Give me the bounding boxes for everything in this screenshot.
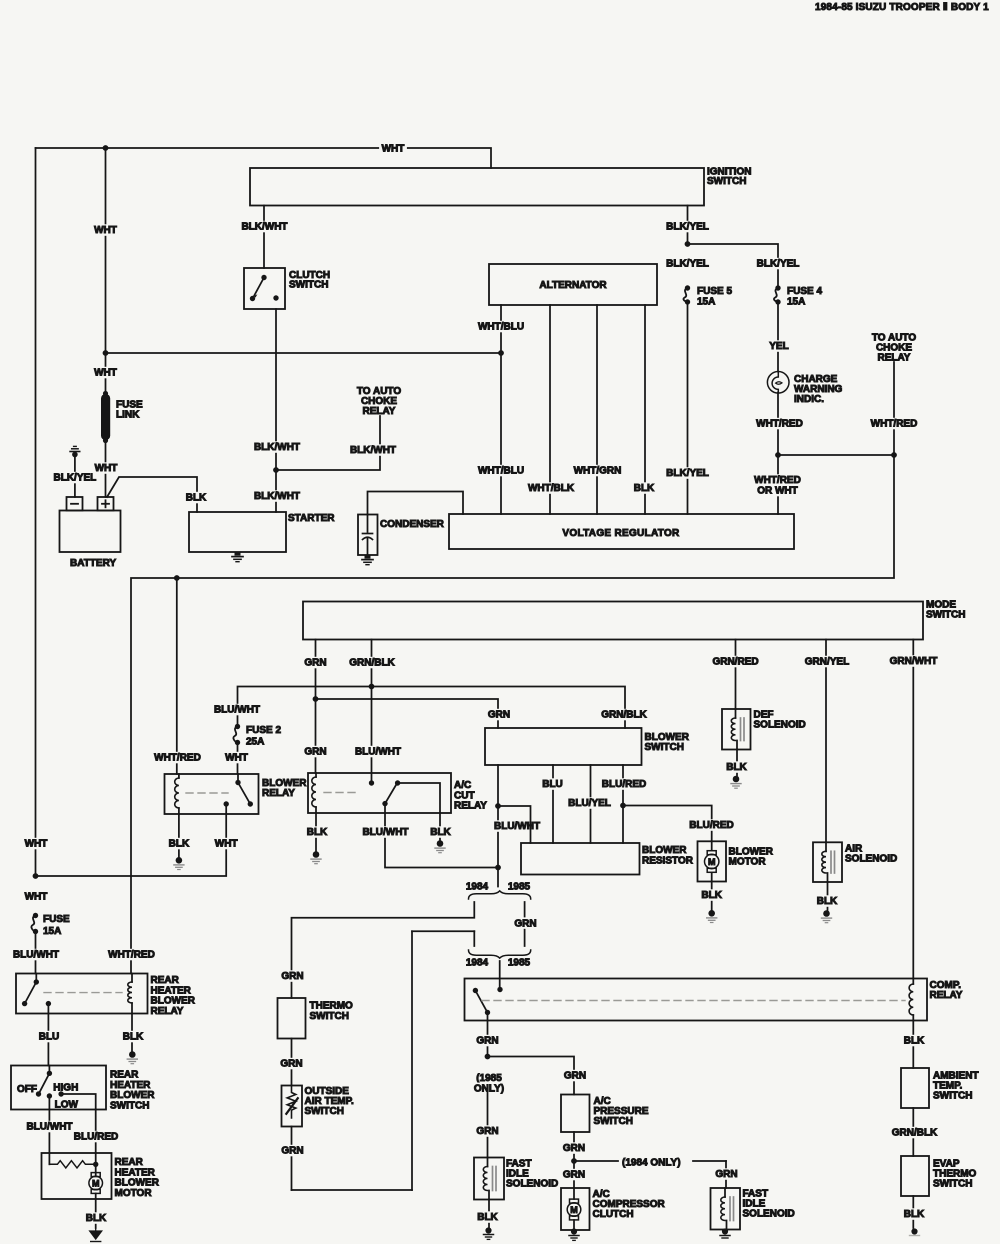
blower motor [698,841,727,881]
svg-text:WHT/BLK: WHT/BLK [528,483,575,494]
air solenoid [813,842,842,882]
svg-text:BLK: BLK [904,1209,925,1220]
wire WHT link to alternator tap [106,352,502,354]
wire GRN to thermo switch [280,970,306,982]
svg-text:BLK/WHT: BLK/WHT [254,442,300,453]
rear heater blower relay [16,974,148,1014]
wire BLK A/C cut relay coil ground [315,813,317,851]
svg-text:GRN: GRN [304,658,326,669]
svg-text:BLU/RED: BLU/RED [74,1132,118,1143]
wire 1985 branch upper [524,902,526,917]
svg-text:GRN: GRN [514,919,536,930]
alternator box [489,264,657,305]
svg-text:CLUTCH: CLUTCH [593,1209,634,1220]
svg-text:BLK: BLK [86,1213,107,1224]
wire BLU/WHT fuse to rear heater blower relay [35,932,37,974]
svg-text:GRN/BLK: GRN/BLK [349,658,395,669]
svg-text:25A: 25A [246,737,264,748]
ground starter [235,552,241,556]
A/C pressure switch box [561,1095,590,1133]
voltage regulator box [449,514,794,549]
ground A/C cut relay coil [313,851,320,858]
wire 1985 branch lower [524,930,526,946]
svg-text:WHT/GRN: WHT/GRN [574,466,622,477]
wire BLU/WHT blower switch left output [497,765,499,868]
ground A/C cut relay contact [437,840,444,847]
svg-text:GRN: GRN [281,971,303,982]
A/C compressor clutch [561,1188,590,1230]
svg-text:BLU/WHT: BLU/WHT [13,950,59,961]
svg-text:MOTOR: MOTOR [115,1188,153,1199]
ignition switch box [250,168,704,206]
svg-text:GRN: GRN [563,1143,585,1154]
blower relay [165,774,259,814]
svg-text:FUSE: FUSE [43,914,70,925]
svg-text:BLK: BLK [123,1032,144,1043]
svg-text:15A: 15A [787,297,805,308]
svg-text:BLK/YEL: BLK/YEL [666,468,709,479]
rear heater blower motor [42,1153,112,1199]
svg-text:GRN/WHT: GRN/WHT [890,656,938,667]
junction WHT/RED [775,452,781,458]
charge warning indicator [767,372,789,394]
svg-text:WHT/BLU: WHT/BLU [478,322,524,333]
ground evap thermo switch [911,1228,917,1234]
svg-text:GRN/RED: GRN/RED [712,657,758,668]
svg-text:RELAY: RELAY [151,1006,184,1017]
wire GRN pressure switch down [573,1132,575,1161]
wire GRN branch to blower switch [316,699,499,728]
svg-text:SWITCH: SWITCH [594,1116,633,1127]
svg-text:GRN: GRN [564,1071,586,1082]
wire BLU/RED blower switch to resistor [622,765,624,843]
wire WHT blower relay to rear heater fuse [36,814,226,876]
node WHT label top [379,143,407,155]
svg-text:BLU/WHT: BLU/WHT [355,747,401,758]
svg-text:M: M [92,1178,100,1188]
svg-text:GRN/BLK: GRN/BLK [601,710,647,721]
wire BLK/WHT clutch to starter [275,309,277,512]
svg-text:VOLTAGE REGULATOR: VOLTAGE REGULATOR [562,528,680,539]
svg-text:WHT: WHT [94,225,117,236]
wire WHT/BLK alternator to voltage regulator [549,305,551,514]
blower resistor box [521,843,640,875]
ambient temp switch box [901,1068,929,1108]
svg-text:SWITCH: SWITCH [289,280,328,291]
svg-text:BLK: BLK [817,896,838,907]
clutch switch [244,268,285,309]
wire WHT/GRN alternator to voltage regulator [596,305,598,514]
svg-text:GRN: GRN [476,1126,498,1137]
junction BLK/YEL split [685,241,691,247]
ground fast idle solenoid right [722,1228,728,1234]
wire 1984 bypass loop [412,930,474,932]
svg-text:WHT/RED: WHT/RED [756,419,803,430]
junction year brace [495,865,501,871]
condenser [368,492,464,515]
node WHT label below junction [92,367,120,379]
wire BLU/RED rear switch to motor [95,1110,97,1154]
svg-text:WHT: WHT [382,144,405,155]
wire BLK/YEL branch to fuse 4 [688,244,779,288]
wire WHT fuse link to battery positive [105,441,107,498]
svg-text:SWITCH: SWITCH [933,1179,972,1190]
svg-text:BLU/RED: BLU/RED [689,820,733,831]
svg-text:RELAY: RELAY [454,801,487,812]
wire BLK def solenoid ground [736,750,738,776]
svg-text:BLK/YEL: BLK/YEL [54,473,97,484]
wire GRN to A/C cut relay coil [315,699,317,773]
wire WHT/RED junction crossbar [778,454,894,456]
junction WHT/RED right [891,452,897,458]
wire GRN/RED mode switch to def solenoid [735,640,737,710]
svg-text:SOLENOID: SOLENOID [743,1209,795,1220]
wire GRN mode switch down [315,640,317,700]
svg-text:BLK/WHT: BLK/WHT [254,491,300,502]
svg-text:BLU/WHT: BLU/WHT [494,821,540,832]
svg-text:SWITCH: SWITCH [645,742,684,753]
svg-text:LOW: LOW [55,1100,79,1111]
ground rear heater blower relay [129,1051,136,1058]
wire BLU/WHT rear switch to motor [48,1110,50,1154]
evap thermo switch box [901,1156,929,1196]
fuse 15A [33,913,38,918]
svg-text:RESISTOR: RESISTOR [642,855,694,866]
svg-text:SWITCH: SWITCH [110,1100,149,1111]
outside air temp switch [282,1086,303,1127]
svg-text:SWITCH: SWITCH [707,176,746,187]
wire BLK/YEL fuse 5 to voltage regulator [687,302,689,514]
wire BLK battery positive to starter [107,477,197,512]
wire WHT to fuse link [105,148,107,394]
wire WHT fuse 2 to blower relay [237,743,239,775]
svg-text:BLU/WHT: BLU/WHT [26,1122,72,1133]
fast idle solenoid left [474,1158,504,1200]
wire BLU blower switch to resistor [552,765,554,843]
wire WHT/BLU alternator to voltage regulator [500,305,502,514]
wire WHT/RED to blower relay coil [176,578,178,774]
junction BLU/WHT resistor tap [495,803,501,809]
starter [189,512,286,552]
wire BLU/WHT to A/C cut relay switch [371,687,373,784]
svg-text:ONLY): ONLY) [474,1083,504,1094]
svg-text:SWITCH: SWITCH [926,610,965,621]
svg-text:HIGH: HIGH [53,1083,78,1094]
svg-text:OFF: OFF [17,1084,37,1095]
junction BLU/RED motor tap [620,803,626,809]
svg-text:YEL: YEL [769,341,788,352]
wire BLK evap thermo ground [912,1196,914,1228]
wire GRN/BLK ambient to evap thermo switch [912,1108,914,1156]
svg-text:15A: 15A [697,297,715,308]
svg-text:1984: 1984 [466,958,489,969]
svg-text:WHT/RED: WHT/RED [754,475,801,486]
wire BLK rear relay coil ground [131,1014,133,1052]
svg-text:INDIC.: INDIC. [794,394,824,405]
thermo switch box [278,998,306,1039]
svg-text:GRN: GRN [563,1170,585,1181]
svg-text:SWITCH: SWITCH [310,1011,349,1022]
wire BLK A/C cut relay contact ground [439,813,441,840]
svg-text:FUSE 5: FUSE 5 [697,286,732,297]
wire GRN thermo to outside air temp switch [291,1039,293,1086]
svg-text:GRN: GRN [488,710,510,721]
wire GRN/YEL mode switch to air solenoid [825,640,827,843]
svg-text:GRN: GRN [280,1059,302,1070]
svg-text:(1984 ONLY): (1984 ONLY) [622,1158,681,1169]
comp relay [465,979,928,1021]
svg-text:BLK: BLK [307,827,328,838]
svg-text:GRN/BLK: GRN/BLK [892,1128,938,1139]
label 1985 only [473,1072,504,1084]
svg-text:BLK: BLK [634,483,655,494]
wire BLU/WHT jog to blower resistor [498,806,531,843]
wire 1984 branch to thermo switch [292,902,475,998]
svg-text:WHT: WHT [94,368,117,379]
wire GRN to A/C compressor clutch [573,1161,575,1188]
svg-text:WHT/BLU: WHT/BLU [478,466,524,477]
mode switch box [303,602,923,640]
ground above battery negative [72,452,78,458]
svg-text:BLK: BLK [904,1036,925,1047]
svg-text:RELAY: RELAY [262,788,295,799]
svg-text:WHT/RED: WHT/RED [871,419,918,430]
svg-text:FUSE 2: FUSE 2 [246,725,281,736]
wire BLU/YEL blower switch to resistor [590,765,592,843]
svg-text:1984: 1984 [466,882,489,893]
svg-text:SWITCH: SWITCH [305,1106,344,1117]
svg-text:BLU: BLU [542,779,563,790]
wire BLU rear relay to rear switch [47,1014,49,1066]
junction fuse-link tap [103,145,109,151]
svg-text:GRN: GRN [476,1036,498,1047]
wire GRN comp relay output [487,1013,489,1057]
wire BLK/YEL battery negative to ground [74,456,76,497]
svg-text:GRN: GRN [304,747,326,758]
svg-text:BATTERY: BATTERY [70,558,116,569]
svg-text:FUSE 4: FUSE 4 [787,286,822,297]
ground blower motor [708,910,715,917]
svg-text:BLU/WHT: BLU/WHT [362,827,408,838]
wire GRN outside air temp switch return [291,1127,293,1191]
wire BLK alternator to voltage regulator [644,305,646,514]
ground def solenoid [733,776,740,783]
svg-text:15A: 15A [43,926,61,937]
wire WHT/RED power rail [131,455,894,974]
svg-text:BLU/RED: BLU/RED [602,779,646,790]
wire WHT/RED indicator to junction [777,393,779,456]
def solenoid [722,709,751,750]
svg-text:BLK/WHT: BLK/WHT [241,222,287,233]
svg-text:WHT: WHT [25,892,48,903]
wire 1984 return branch [473,931,475,946]
svg-text:LINK: LINK [116,410,140,421]
wire year brace feed [497,868,499,887]
wire GRN to fast idle solenoid left [487,1091,489,1158]
svg-text:BLK/WHT: BLK/WHT [350,445,396,456]
wire left border WHT vertical [35,148,37,876]
svg-text:BLU: BLU [39,1032,60,1043]
wire BLK/YEL ignition switch down [687,206,689,245]
svg-text:BLK: BLK [477,1212,498,1223]
svg-text:BLK/YEL: BLK/YEL [666,222,709,233]
svg-text:SOLENOID: SOLENOID [506,1179,558,1190]
wire 1984 only crossover [574,1160,618,1162]
battery [60,511,121,553]
wire WHT/RED OR WHT to voltage regulator [777,455,779,514]
wire BLK blower motor ground [711,882,713,911]
wire BLK comp relay to ambient temp switch [912,1021,914,1069]
rear heater blower switch [11,1066,106,1110]
svg-text:SOLENOID: SOLENOID [845,854,897,865]
svg-text:BLK: BLK [430,827,451,838]
junction GRN/BLK [369,684,375,690]
wire YEL fuse 4 to charge warning indicator [777,302,779,372]
svg-text:1985: 1985 [508,958,531,969]
wire GRN/WHT mode switch to comp relay [912,640,914,979]
svg-text:ALTERNATOR: ALTERNATOR [539,280,607,291]
svg-text:BLK: BLK [169,839,190,850]
svg-text:BLK: BLK [726,762,747,773]
wire BLK air solenoid ground [827,882,829,910]
svg-text:BLK/YEL: BLK/YEL [757,259,800,270]
ground rear heater blower motor [90,1228,102,1239]
fuse link [101,394,110,440]
svg-text:GRN: GRN [281,1146,303,1157]
ground air solenoid [823,910,830,917]
ground A/C compressor clutch [571,1228,577,1234]
year brace top [469,891,531,899]
svg-text:WHT: WHT [215,839,238,850]
svg-text:BLK: BLK [701,890,722,901]
svg-text:BLK: BLK [186,493,207,504]
svg-text:WHT/RED: WHT/RED [154,753,201,764]
svg-text:GRN: GRN [715,1169,737,1180]
svg-text:STARTER: STARTER [288,513,335,524]
wire WHT top feed horizontal [36,148,492,168]
junction blower relay feed [174,575,180,581]
svg-text:BLU/YEL: BLU/YEL [568,798,611,809]
svg-text:BLK/YEL: BLK/YEL [666,259,709,270]
svg-text:SOLENOID: SOLENOID [754,720,806,731]
wire GRN to A/C pressure switch [488,1057,575,1095]
svg-text:WHT: WHT [25,839,48,850]
year brace bottom [469,950,531,958]
svg-text:1985: 1985 [508,882,531,893]
svg-text:WHT/RED: WHT/RED [108,950,155,961]
junction GRN [313,696,319,702]
svg-text:MOTOR: MOTOR [729,857,767,868]
svg-text:GRN/YEL: GRN/YEL [805,657,849,668]
fast idle solenoid right [711,1188,741,1230]
ground blower relay [176,857,183,864]
fuse 5 15A [685,285,690,290]
svg-text:1984-85 ISUZU TROOPER ‖ BODY 1: 1984-85 ISUZU TROOPER ‖ BODY 1 [815,2,989,13]
wire BLK fast idle solenoid left ground [488,1200,490,1228]
svg-text:RELAY: RELAY [930,990,963,1001]
svg-text:SWITCH: SWITCH [933,1091,972,1102]
wire GRN/BLK crossbar to blower switch [238,687,626,729]
junction GRN 1984 tap [571,1158,577,1164]
junction GRN 1985 [485,1054,491,1060]
wire WHT left rail labels [22,838,50,850]
svg-text:M: M [570,1205,578,1215]
ground fast idle solenoid left [485,1227,491,1233]
wire brace to comp relay [499,961,501,990]
svg-text:M: M [708,857,716,867]
svg-text:WHT: WHT [225,753,248,764]
fuse 2 25A [235,724,240,729]
wire BLK/WHT ignition to clutch switch [263,206,265,269]
wire BLK blower relay coil to ground [178,814,180,857]
junction WHT left rail [33,873,39,879]
ground condenser [365,555,371,559]
blower switch box [485,728,642,765]
wire BLU/WHT A/C cut relay to year brace [385,804,498,868]
svg-text:OR WHT: OR WHT [757,486,798,497]
wire BLU/RED to blower motor [623,806,712,842]
A/C cut relay [308,773,451,813]
svg-text:CONDENSER: CONDENSER [380,519,445,530]
fuse 4 15A [775,285,780,290]
wire GRN/BLK mode switch down [371,640,373,687]
wire BLK rear motor ground [95,1199,97,1228]
junction clutch-starter / choke stub [273,467,279,473]
svg-text:BLU/WHT: BLU/WHT [214,705,260,716]
